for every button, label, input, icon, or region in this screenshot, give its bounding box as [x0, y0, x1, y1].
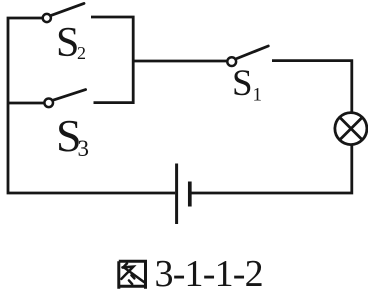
- svg-text:3-1-1-2: 3-1-1-2: [155, 253, 263, 292]
- svg-text:3: 3: [78, 136, 90, 161]
- svg-text:1: 1: [253, 85, 263, 106]
- svg-text:2: 2: [77, 43, 86, 63]
- svg-text:S: S: [232, 63, 253, 104]
- svg-text:S: S: [56, 20, 79, 66]
